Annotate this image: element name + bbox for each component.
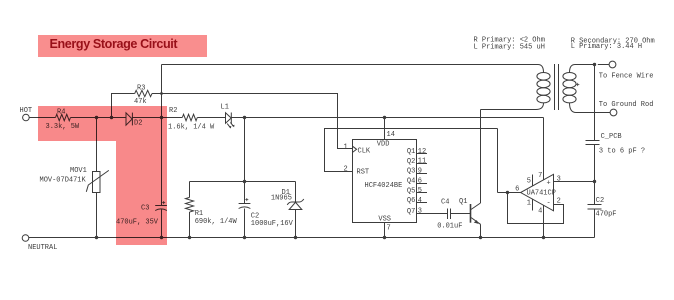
svg-text:CLK: CLK	[358, 148, 371, 156]
svg-text:L Primary: 3.44 H: L Primary: 3.44 H	[571, 43, 642, 51]
svg-text:11: 11	[418, 158, 426, 166]
pin 14 VDD	[377, 118, 395, 149]
transformer spec text left	[474, 37, 545, 52]
wire main HOT rail	[29, 117, 543, 119]
svg-text:Q3: Q3	[407, 168, 415, 176]
pin Q3 out 9	[407, 168, 427, 176]
svg-text:HCF4024BE: HCF4024BE	[365, 182, 403, 190]
pin 7 VSS	[378, 216, 391, 238]
svg-text:690k, 1/4W: 690k, 1/4W	[195, 218, 238, 226]
svg-text:Q7: Q7	[407, 208, 415, 216]
terminal To Ground Rod	[599, 101, 654, 116]
capacitor C3	[116, 201, 167, 237]
pin Q7 out 3	[407, 208, 448, 216]
transistor Q1	[459, 110, 481, 238]
svg-text:470pF: 470pF	[596, 211, 617, 219]
svg-text:Q1: Q1	[459, 198, 467, 206]
svg-text:7: 7	[387, 225, 391, 233]
svg-text:2: 2	[557, 198, 561, 206]
svg-text:47k: 47k	[134, 98, 147, 106]
node junction dots on neutral rail	[95, 236, 545, 239]
svg-text:Q6: Q6	[407, 197, 415, 205]
terminal NEUTRAL	[22, 235, 57, 252]
svg-text:-: -	[546, 199, 550, 207]
pin 6 output wire	[498, 185, 521, 193]
resistor R2	[168, 107, 215, 131]
svg-text:Q5: Q5	[407, 187, 415, 195]
wire op-amp output to RST	[325, 129, 498, 193]
resistor R4	[46, 109, 80, 131]
svg-text:3 to 6 pF ?: 3 to 6 pF ?	[599, 148, 645, 156]
pin Q2 out 11	[407, 158, 427, 166]
svg-text:6: 6	[418, 177, 422, 185]
varistor MOV1	[40, 118, 109, 238]
svg-text:VDD: VDD	[377, 140, 390, 148]
op-amp U2 UA741CP	[521, 174, 556, 211]
svg-text:5: 5	[527, 177, 531, 185]
svg-text:RST: RST	[357, 168, 370, 176]
pin Q1 out 12	[407, 148, 427, 156]
transformer T1 secondary	[563, 65, 611, 113]
svg-text:1N965: 1N965	[271, 194, 292, 202]
terminal To Fence Wire	[598, 61, 654, 80]
svg-text:R2: R2	[169, 107, 177, 115]
title box	[38, 35, 207, 57]
svg-text:+: +	[546, 179, 550, 187]
pin 7 V+ wire	[538, 118, 543, 181]
transformer T1 core	[555, 64, 559, 110]
svg-text:To Ground Rod: To Ground Rod	[599, 101, 654, 109]
transformer T1 primary	[481, 65, 551, 110]
svg-text:L1: L1	[221, 103, 229, 111]
svg-text:MOV-07D471K: MOV-07D471K	[40, 177, 87, 185]
pin Q4 out 6	[407, 177, 427, 185]
svg-text:C2: C2	[596, 197, 604, 205]
svg-text:2: 2	[343, 166, 347, 174]
svg-text:1: 1	[343, 144, 347, 152]
svg-text:3: 3	[418, 208, 422, 216]
resistor R3 with loop wires	[112, 84, 353, 148]
svg-text:Q1: Q1	[407, 148, 415, 156]
svg-text:VSS: VSS	[378, 216, 391, 224]
pin 3 noninverting input wire	[554, 176, 595, 184]
svg-text:L Primary: 545 uH: L Primary: 545 uH	[474, 43, 545, 51]
svg-text:3: 3	[557, 176, 561, 184]
svg-text:1.6k, 1/4 W: 1.6k, 1/4 W	[168, 123, 215, 131]
svg-text:C4: C4	[441, 199, 449, 207]
svg-text:4: 4	[538, 208, 542, 216]
svg-text:12: 12	[418, 148, 426, 156]
wire bottom neutral rail	[29, 237, 595, 239]
node output junction dot	[506, 191, 509, 194]
capacitor CP	[588, 197, 617, 219]
pin 2 RST	[343, 166, 369, 177]
title text	[50, 37, 178, 51]
wire supply node vertical and top of R1/C2/D1	[190, 118, 296, 182]
LED L1	[221, 103, 235, 128]
svg-text:Q4: Q4	[407, 178, 415, 186]
transformer spec text right	[571, 38, 655, 52]
svg-text:9: 9	[418, 168, 422, 176]
resistor R1	[186, 182, 238, 238]
svg-text:R1: R1	[195, 210, 203, 218]
pin 1 stub	[527, 199, 533, 211]
capacitor C4	[437, 199, 470, 231]
svg-text:Q2: Q2	[407, 158, 415, 166]
zener diode D1	[271, 182, 304, 238]
pin 2 inverting input feedback wire	[508, 193, 564, 224]
wire sense rail vertical	[594, 65, 596, 238]
pin 4 V- wire	[538, 205, 543, 237]
diode D2	[126, 113, 142, 128]
svg-text:C_PCB: C_PCB	[601, 133, 622, 141]
node fence sense junction	[593, 63, 596, 66]
capacitor C2	[239, 182, 294, 238]
node junction dots on HOT rail	[95, 116, 386, 119]
pin Q6 out 4	[407, 197, 427, 205]
highlight overlay band	[38, 106, 167, 141]
svg-text:1: 1	[527, 200, 531, 208]
node supply junction dot	[243, 180, 246, 183]
pin 1 CLK	[343, 144, 370, 156]
wire storage node vertical	[161, 65, 163, 206]
highlight overlay strip	[116, 141, 167, 245]
svg-text:6: 6	[515, 185, 519, 193]
node op-amp plus input junction	[593, 180, 596, 183]
IC U1 HCF4024BE box	[353, 140, 417, 223]
svg-text:NEUTRAL: NEUTRAL	[28, 244, 57, 252]
svg-text:MOV1: MOV1	[70, 167, 87, 175]
svg-text:1000uF,16V: 1000uF,16V	[251, 220, 294, 228]
svg-text:HOT: HOT	[20, 107, 33, 115]
svg-text:UA741CP: UA741CP	[527, 190, 556, 198]
svg-text:14: 14	[387, 131, 395, 139]
pin Q5 out 5	[407, 187, 427, 195]
wire top line to transformer primary	[162, 64, 539, 66]
svg-text:0.01uF: 0.01uF	[437, 223, 462, 231]
pin 5 stub	[527, 175, 533, 187]
svg-text:7: 7	[538, 172, 542, 180]
terminal HOT	[20, 107, 33, 121]
node junction R3 storage	[160, 92, 163, 95]
svg-text:5: 5	[418, 187, 422, 195]
svg-text:4: 4	[418, 197, 422, 205]
svg-text:To Fence Wire: To Fence Wire	[599, 72, 654, 80]
capacitor C_PCB	[586, 133, 646, 155]
svg-text:R3: R3	[137, 84, 145, 92]
